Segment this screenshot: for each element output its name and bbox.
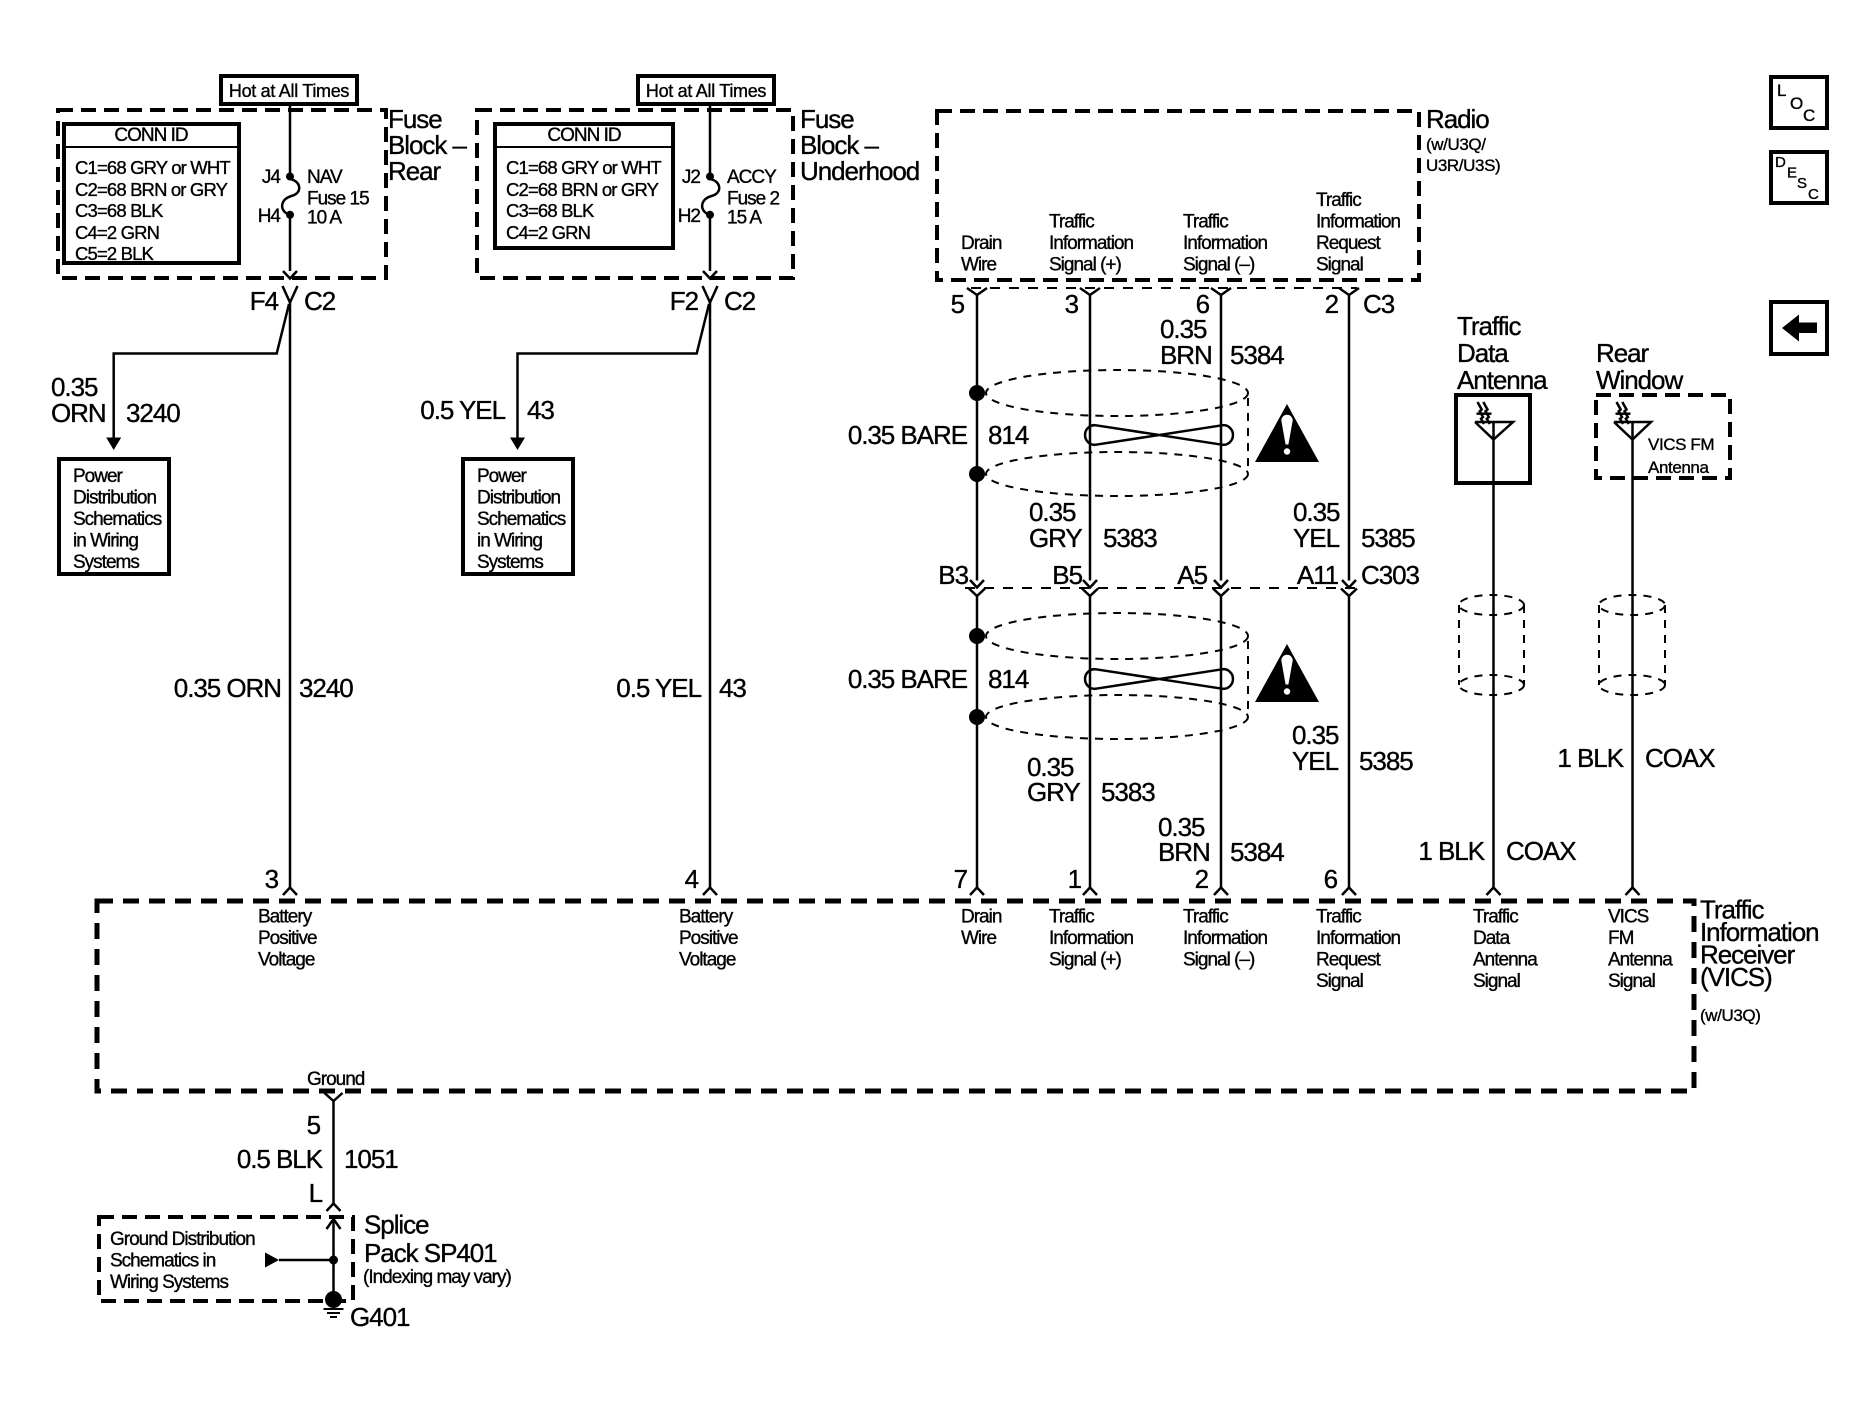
svg-text:L: L	[1777, 81, 1786, 100]
receiver pin label Traffic Information Signal (-)	[1183, 907, 1267, 971]
svg-text:Battery: Battery	[258, 907, 313, 928]
arrow into power distribution box (left)	[106, 438, 121, 451]
svg-text:1 BLK: 1 BLK	[1418, 836, 1485, 866]
warning triangle (upper)	[1255, 404, 1319, 462]
power distribution schematics box (left)	[59, 459, 169, 574]
shield (lower twisted pair) dashed ellipses	[986, 613, 1248, 739]
svg-text:GRY: GRY	[1029, 523, 1082, 553]
svg-text:S: S	[1797, 175, 1807, 192]
svg-text:C2: C2	[304, 286, 336, 316]
svg-text:O: O	[1790, 94, 1803, 113]
label 0.35 YEL 5385 (upper)	[1293, 497, 1415, 553]
svg-text:(VICS): (VICS)	[1700, 962, 1772, 992]
connector C3 cavity 3 (signal +)	[1065, 288, 1100, 319]
svg-text:Information: Information	[1183, 233, 1267, 254]
traffic information receiver dashed box	[97, 901, 1694, 1091]
svg-text:C5=2 BLK: C5=2 BLK	[75, 243, 155, 264]
svg-text:C2=68 BRN or GRY: C2=68 BRN or GRY	[506, 179, 659, 200]
power feed label "Hot at All Times" (right)	[638, 76, 774, 104]
receiver pin 1	[1068, 864, 1097, 895]
svg-text:C2=68 BRN or GRY: C2=68 BRN or GRY	[75, 179, 228, 200]
svg-text:C1=68 GRY or WHT: C1=68 GRY or WHT	[75, 157, 230, 178]
svg-text:Rear: Rear	[388, 156, 442, 186]
receiver pin label Battery Positive Voltage (pin 4)	[679, 907, 738, 971]
svg-text:CONN ID: CONN ID	[114, 125, 188, 146]
receiver pin label Drain Wire	[961, 907, 1002, 950]
svg-text:C1=68 GRY or WHT: C1=68 GRY or WHT	[506, 157, 661, 178]
receiver pin label Traffic Information Signal (+)	[1049, 907, 1133, 971]
receiver ground pin 5	[307, 1093, 343, 1140]
connector C3 cavity 6 (signal -)	[1196, 288, 1231, 319]
label Fuse Block - Underhood	[800, 104, 919, 186]
svg-text:0.35 BARE: 0.35 BARE	[848, 420, 968, 450]
svg-text:H4: H4	[258, 206, 282, 227]
svg-text:Information: Information	[1316, 928, 1400, 949]
label 1 BLK COAX (traffic data)	[1418, 836, 1576, 866]
svg-text:Data: Data	[1457, 338, 1509, 368]
svg-text:Wiring Systems: Wiring Systems	[110, 1272, 228, 1293]
receiver pin label Traffic Information Request Signal	[1316, 907, 1400, 993]
svg-text:B3: B3	[938, 560, 968, 590]
svg-text:Drain: Drain	[961, 907, 1002, 928]
svg-text:0.35 ORN: 0.35 ORN	[174, 673, 281, 703]
svg-text:43: 43	[527, 395, 554, 425]
svg-text:(Indexing may vary): (Indexing may vary)	[363, 1267, 512, 1288]
svg-text:Antenna: Antenna	[1608, 950, 1673, 971]
svg-text:Antenna: Antenna	[1457, 365, 1548, 395]
svg-text:Traffic: Traffic	[1049, 907, 1094, 928]
svg-text:4: 4	[685, 864, 699, 894]
wire 0.5 BLK 1051	[332, 1101, 335, 1204]
svg-text:Power: Power	[477, 466, 528, 487]
fuse block rear dashed box	[58, 110, 386, 278]
svg-text:D: D	[1775, 154, 1786, 171]
svg-text:(w/U3Q): (w/U3Q)	[1700, 1006, 1760, 1025]
svg-text:E: E	[1787, 165, 1797, 182]
svg-text:C303: C303	[1361, 560, 1420, 590]
svg-text:Data: Data	[1473, 928, 1511, 949]
svg-text:1 BLK: 1 BLK	[1557, 743, 1624, 773]
svg-text:Signal: Signal	[1316, 971, 1363, 992]
svg-text:BRN: BRN	[1158, 837, 1210, 867]
svg-text:Ground Distribution: Ground Distribution	[110, 1229, 255, 1250]
svg-text:Traffic: Traffic	[1183, 212, 1228, 233]
svg-text:Wire: Wire	[961, 928, 996, 949]
svg-text:Schematics: Schematics	[477, 509, 566, 530]
svg-text:Systems: Systems	[73, 552, 139, 573]
label 0.5 YEL 43 (branch)	[420, 395, 554, 425]
svg-text:5: 5	[951, 289, 965, 319]
label 0.35 ORN 3240 (main wire)	[174, 673, 353, 703]
svg-text:C: C	[1803, 106, 1815, 125]
svg-text:Antenna: Antenna	[1473, 950, 1538, 971]
svg-text:0.35 BARE: 0.35 BARE	[848, 664, 968, 694]
splice pack SP401 entry arrow	[327, 1219, 341, 1296]
svg-text:Window: Window	[1596, 365, 1683, 395]
label 1 BLK COAX (VICS FM)	[1557, 743, 1715, 773]
svg-text:1: 1	[1068, 864, 1082, 894]
receiver pin 6	[1324, 864, 1356, 895]
receiver pin 4	[685, 864, 717, 895]
svg-text:Request: Request	[1316, 950, 1381, 971]
splice junction dot	[329, 1256, 338, 1265]
svg-text:YEL: YEL	[1292, 746, 1339, 776]
wire 0.35 BRN 5384 upper segment	[1220, 295, 1223, 581]
CONN ID table (fuse block rear)	[64, 124, 239, 264]
ground G401 symbol	[324, 1291, 410, 1332]
wire drain (bare) lower segment	[976, 596, 979, 888]
svg-text:0.5 YEL: 0.5 YEL	[420, 395, 505, 425]
svg-text:5385: 5385	[1359, 746, 1413, 776]
radio pin label Traffic Information Request Signal	[1316, 190, 1400, 276]
wire from Hot at All Times to fuse NAV	[289, 104, 292, 174]
svg-text:Radio: Radio	[1426, 104, 1489, 134]
svg-text:Traffic: Traffic	[1183, 907, 1228, 928]
wire 0.35 BRN 5384 lower segment	[1220, 596, 1223, 888]
svg-text:Information: Information	[1049, 928, 1133, 949]
wire branch to Power Distribution (right)	[518, 304, 710, 438]
radio pin label Drain Wire	[961, 233, 1002, 276]
connector C3 line at radio	[971, 287, 1357, 289]
DESC nav icon	[1771, 152, 1827, 203]
svg-text:3240: 3240	[299, 673, 353, 703]
receiver pin (VICS FM antenna signal)	[1626, 888, 1640, 896]
back arrow nav icon	[1771, 302, 1827, 354]
svg-text:2: 2	[1325, 289, 1339, 319]
receiver pin 7	[954, 864, 984, 895]
power distribution schematics box (right)	[463, 459, 573, 574]
coax shield cylinder (traffic data)	[1459, 595, 1524, 695]
label 0.35 BARE 814 (lower)	[848, 664, 1029, 694]
svg-text:Traffic: Traffic	[1049, 212, 1094, 233]
drain wire junction dots (upper shield)	[969, 385, 985, 482]
receiver pin label Traffic Data Antenna Signal	[1473, 907, 1538, 993]
wire drain (bare) upper segment	[976, 295, 979, 581]
connector C303 cavity A11	[1297, 560, 1420, 596]
receiver pin label Battery Positive Voltage (pin 3)	[258, 907, 317, 971]
svg-text:VICS FM: VICS FM	[1648, 435, 1714, 454]
svg-text:Traffic: Traffic	[1316, 190, 1361, 211]
svg-text:C4=2 GRN: C4=2 GRN	[506, 222, 590, 243]
svg-text:H2: H2	[678, 206, 701, 227]
LOC nav icon	[1771, 77, 1827, 128]
svg-text:Information: Information	[1049, 233, 1133, 254]
svg-text:Hot at All Times: Hot at All Times	[229, 81, 350, 101]
arrow into power distribution box (right)	[510, 438, 525, 451]
svg-text:GRY: GRY	[1027, 777, 1080, 807]
receiver pin (traffic data antenna signal)	[1487, 888, 1501, 896]
label 0.35 BARE 814 (upper)	[848, 420, 1029, 450]
fuse NAV Fuse 15 10 A, pins J4/H4	[258, 167, 369, 229]
svg-text:Signal: Signal	[1608, 971, 1655, 992]
wire branch to Power Distribution (left)	[114, 304, 289, 438]
label 0.35 GRY 5383 (lower)	[1027, 752, 1155, 807]
connector C303 line	[965, 587, 1357, 589]
svg-text:3240: 3240	[126, 398, 180, 428]
svg-text:C4=2 GRN: C4=2 GRN	[75, 222, 159, 243]
connector C3 cavity 2 (request)	[1325, 288, 1395, 319]
svg-text:Splice: Splice	[364, 1210, 429, 1240]
CONN ID table (fuse block underhood)	[495, 124, 673, 248]
drain wire junction dots (lower shield)	[969, 628, 985, 725]
svg-text:Rear: Rear	[1596, 338, 1650, 368]
radio pin label Traffic Information Signal (-)	[1183, 212, 1267, 276]
svg-text:Battery: Battery	[679, 907, 734, 928]
svg-text:C3=68 BLK: C3=68 BLK	[506, 200, 595, 221]
svg-text:C3=68 BLK: C3=68 BLK	[75, 200, 164, 221]
svg-text:814: 814	[988, 664, 1029, 694]
ground distribution branch arrow and wire	[265, 1253, 334, 1268]
svg-text:10 A: 10 A	[307, 208, 342, 229]
wire fuse NAV down to fuse block edge with arrow	[283, 215, 297, 279]
svg-text:1051: 1051	[344, 1144, 398, 1174]
splice pack cavity L	[309, 1178, 341, 1211]
svg-text:Information: Information	[1183, 928, 1267, 949]
svg-text:J4: J4	[262, 167, 282, 188]
svg-text:J2: J2	[682, 167, 701, 188]
connector C2 cavity F2	[670, 286, 756, 316]
label 0.35 BRN 5384 (lower)	[1158, 812, 1284, 867]
svg-text:Pack SP401: Pack SP401	[364, 1238, 497, 1268]
wire 0.35 YEL 5385 upper segment	[1348, 295, 1351, 581]
svg-text:Traffic: Traffic	[1457, 311, 1521, 341]
wire 1 BLK COAX (traffic data antenna)	[1492, 483, 1495, 888]
svg-text:Wire: Wire	[961, 255, 996, 276]
svg-text:5383: 5383	[1103, 523, 1157, 553]
svg-text:in Wiring: in Wiring	[73, 531, 138, 552]
label 0.35 BRN 5384 (upper)	[1160, 314, 1284, 370]
svg-text:Underhood: Underhood	[800, 156, 919, 186]
receiver pin label VICS FM Antenna Signal	[1608, 907, 1673, 993]
svg-text:Voltage: Voltage	[258, 950, 315, 971]
fuse block underhood dashed box	[477, 110, 793, 278]
svg-text:FM: FM	[1608, 928, 1634, 949]
svg-text:Traffic: Traffic	[1316, 907, 1361, 928]
svg-text:Distribution: Distribution	[477, 488, 560, 509]
svg-text:Schematics in: Schematics in	[110, 1251, 216, 1272]
svg-text:COAX: COAX	[1506, 836, 1576, 866]
coax shield cylinder (VICS FM)	[1599, 595, 1665, 695]
wire fuse ACCY down to fuse block edge with arrow	[703, 215, 717, 279]
wire 0.35 GRY 5383 lower segment	[1089, 596, 1092, 888]
svg-text:Hot at All Times: Hot at All Times	[646, 81, 767, 101]
rear window dashed box with VICS FM antenna symbol	[1596, 395, 1730, 478]
svg-text:Fuse 15: Fuse 15	[307, 189, 369, 210]
connector C303 cavity B3	[938, 560, 985, 596]
svg-text:15 A: 15 A	[727, 208, 762, 229]
svg-text:U3R/U3S): U3R/U3S)	[1426, 156, 1500, 175]
label Rear Window	[1596, 338, 1683, 395]
connector C303 cavity A5	[1177, 560, 1229, 596]
label 0.5 BLK 1051	[237, 1144, 398, 1174]
svg-text:Signal (–): Signal (–)	[1183, 950, 1255, 971]
svg-text:Distribution: Distribution	[73, 488, 156, 509]
label Fuse Block - Rear	[388, 104, 468, 186]
svg-text:5385: 5385	[1361, 523, 1415, 553]
svg-text:VICS: VICS	[1608, 907, 1649, 928]
svg-text:5384: 5384	[1230, 837, 1284, 867]
svg-text:A5: A5	[1177, 560, 1207, 590]
svg-text:F4: F4	[250, 286, 279, 316]
wire 0.35 ORN 3240 (main vertical, circuit 3240)	[289, 303, 292, 888]
svg-text:Signal: Signal	[1316, 255, 1363, 276]
radio pin label Traffic Information Signal (+)	[1049, 212, 1133, 276]
svg-text:3: 3	[1065, 289, 1079, 319]
ground distribution dashed box	[99, 1217, 353, 1301]
label 0.35 GRY 5383 (upper)	[1029, 497, 1157, 553]
svg-text:BRN: BRN	[1160, 340, 1212, 370]
label Radio (w/U3Q/ U3R/U3S)	[1426, 104, 1500, 175]
connector C2 cavity F4	[250, 286, 336, 316]
svg-text:Systems: Systems	[477, 552, 543, 573]
wire 0.5 YEL 43 (main vertical, circuit 43)	[709, 303, 712, 888]
label Ground Distribution Schematics in Wiring Systems	[110, 1229, 255, 1293]
svg-text:Ground: Ground	[307, 1069, 365, 1090]
warning triangle (lower)	[1255, 644, 1319, 702]
svg-text:2: 2	[1195, 864, 1209, 894]
label 0.5 YEL 43 (main wire)	[616, 673, 746, 703]
svg-text:7: 7	[954, 864, 968, 894]
svg-text:in Wiring: in Wiring	[477, 531, 542, 552]
svg-text:YEL: YEL	[1293, 523, 1340, 553]
svg-text:NAV: NAV	[307, 167, 343, 188]
svg-text:Signal (+): Signal (+)	[1049, 255, 1122, 276]
wire 1 BLK COAX (VICS FM antenna)	[1631, 478, 1634, 888]
svg-text:6: 6	[1324, 864, 1338, 894]
wire 0.35 GRY 5383 upper segment	[1089, 295, 1092, 581]
svg-text:5384: 5384	[1230, 340, 1284, 370]
label 0.35 ORN 3240 (branch)	[51, 372, 180, 428]
svg-text:B5: B5	[1052, 560, 1082, 590]
svg-text:ORN: ORN	[51, 398, 106, 428]
svg-text:814: 814	[988, 420, 1029, 450]
receiver pin 2	[1195, 864, 1228, 895]
svg-text:5383: 5383	[1101, 777, 1155, 807]
svg-text:A11: A11	[1297, 560, 1339, 590]
label Traffic Information Receiver (VICS) (w/U3Q)	[1700, 895, 1819, 1026]
label Splice Pack SP401 (Indexing may vary)	[363, 1210, 512, 1289]
svg-text:CONN ID: CONN ID	[547, 125, 621, 146]
svg-text:L: L	[309, 1178, 323, 1208]
svg-text:Voltage: Voltage	[679, 950, 736, 971]
fuse ACCY Fuse 2 15 A, pins J2/H2	[678, 167, 780, 229]
wire 0.35 YEL 5385 lower segment	[1348, 596, 1351, 888]
svg-text:Signal (–): Signal (–)	[1183, 255, 1255, 276]
svg-text:Positive: Positive	[679, 928, 738, 949]
svg-text:Positive: Positive	[258, 928, 317, 949]
svg-text:Drain: Drain	[961, 233, 1002, 254]
svg-text:43: 43	[719, 673, 746, 703]
shield (upper twisted pair) dashed ellipses	[986, 370, 1248, 496]
svg-text:0.5 BLK: 0.5 BLK	[237, 1144, 324, 1174]
svg-text:COAX: COAX	[1645, 743, 1715, 773]
svg-text:Antenna: Antenna	[1648, 458, 1709, 477]
svg-text:Traffic: Traffic	[1473, 907, 1518, 928]
svg-text:Request: Request	[1316, 233, 1381, 254]
svg-text:G401: G401	[350, 1302, 410, 1332]
receiver pin 3	[265, 864, 297, 895]
svg-text:Signal (+): Signal (+)	[1049, 950, 1122, 971]
svg-text:Fuse 2: Fuse 2	[727, 189, 780, 210]
label Traffic Data Antenna	[1457, 311, 1548, 395]
svg-text:F2: F2	[670, 286, 699, 316]
label 0.35 YEL 5385 (lower)	[1292, 720, 1413, 776]
twisted pair symbol (upper)	[1085, 425, 1233, 445]
svg-text:Schematics: Schematics	[73, 509, 162, 530]
svg-text:(w/U3Q/: (w/U3Q/	[1426, 135, 1486, 154]
svg-text:Power: Power	[73, 466, 124, 487]
svg-text:Signal: Signal	[1473, 971, 1520, 992]
wire from Hot at All Times to fuse ACCY	[709, 104, 712, 174]
svg-text:C2: C2	[724, 286, 756, 316]
svg-text:3: 3	[265, 864, 279, 894]
svg-text:5: 5	[307, 1110, 321, 1140]
svg-text:Information: Information	[1316, 212, 1400, 233]
connector C303 cavity B5	[1052, 560, 1098, 596]
svg-text:C3: C3	[1363, 289, 1395, 319]
radio dashed box	[937, 111, 1419, 280]
traffic data antenna box with antenna symbol	[1456, 395, 1530, 483]
power feed label "Hot at All Times" (left)	[221, 76, 357, 104]
svg-text:ACCY: ACCY	[727, 167, 777, 188]
svg-text:0.5 YEL: 0.5 YEL	[616, 673, 701, 703]
connector C3 cavity 5 (drain wire)	[951, 288, 987, 319]
twisted pair symbol (lower)	[1085, 669, 1233, 689]
svg-text:C: C	[1808, 186, 1819, 203]
